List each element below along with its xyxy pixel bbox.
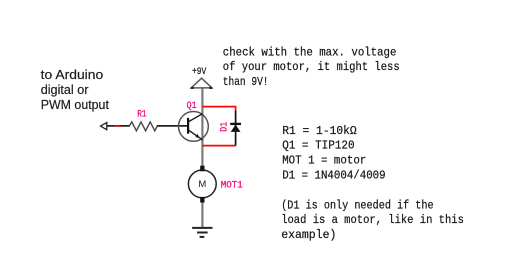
svg-text:MOT1: MOT1 bbox=[221, 181, 243, 192]
svg-text:MOT 1 = motor: MOT 1 = motor bbox=[282, 154, 366, 168]
svg-text:R1: R1 bbox=[137, 109, 146, 120]
svg-text:(D1 is only needed if the: (D1 is only needed if the bbox=[281, 199, 433, 213]
svg-text:D1 = 1N4004/4009: D1 = 1N4004/4009 bbox=[282, 169, 385, 183]
svg-text:PWM output: PWM output bbox=[41, 97, 110, 112]
svg-text:check with the max. voltage: check with the max. voltage bbox=[223, 46, 397, 60]
svg-text:Q1: Q1 bbox=[187, 101, 197, 112]
svg-text:digital or: digital or bbox=[41, 82, 89, 97]
svg-text:D1: D1 bbox=[220, 122, 231, 132]
svg-text:+9V: +9V bbox=[192, 67, 206, 78]
svg-text:Q1 = TIP120: Q1 = TIP120 bbox=[282, 139, 354, 153]
svg-text:M: M bbox=[198, 179, 206, 190]
svg-text:of your motor, it might less: of your motor, it might less bbox=[223, 60, 400, 74]
svg-text:than 9V!: than 9V! bbox=[223, 75, 269, 89]
svg-text:R1 = 1-10kΩ: R1 = 1-10kΩ bbox=[282, 124, 357, 138]
svg-text:example): example) bbox=[281, 228, 336, 242]
svg-text:load is a motor, like in this: load is a motor, like in this bbox=[281, 213, 464, 227]
svg-text:to Arduino: to Arduino bbox=[41, 67, 104, 82]
